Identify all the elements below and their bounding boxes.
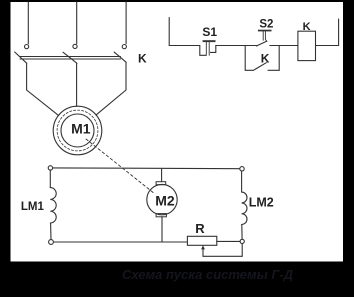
svg-text:K: K	[303, 21, 311, 33]
svg-text:Схема пуска системы Г-Д: Схема пуска системы Г-Д	[122, 267, 294, 282]
svg-text:K: K	[261, 52, 270, 66]
svg-text:LM2: LM2	[249, 195, 274, 209]
svg-text:M2: M2	[155, 192, 175, 208]
svg-text:S2: S2	[259, 18, 273, 30]
svg-text:R: R	[195, 221, 205, 236]
svg-text:LM1: LM1	[21, 201, 45, 213]
svg-text:K: K	[138, 51, 147, 65]
svg-text:S1: S1	[202, 25, 217, 39]
svg-text:M1: M1	[71, 120, 91, 136]
